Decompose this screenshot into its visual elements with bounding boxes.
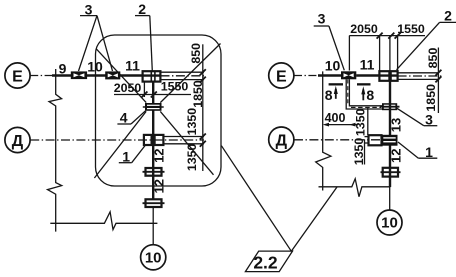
valve fitting 1 (axis Д, left)	[144, 135, 164, 145]
flow mark bar right (8)	[357, 83, 371, 85]
extension fitting 11 right	[397, 36, 399, 72]
dim text 1350 upper (right, rotated) with underline	[353, 108, 367, 137]
flanged tee fitting 11 (left)	[143, 71, 161, 81]
diagonal SE ray	[160, 111, 213, 174]
axis dash inside elbow horizontal run	[351, 106, 381, 108]
svg-text:2: 2	[138, 1, 146, 17]
flanged connection fitting A	[143, 168, 165, 176]
axis Е continuation right of fitting 11	[161, 75, 205, 77]
compensator fitting (right, dark with slots)	[380, 103, 400, 110]
elbow pipe double line (down from tee, right block)	[346, 79, 382, 109]
flanged connection fitting (right lower)	[381, 168, 401, 177]
svg-text:12: 12	[388, 149, 403, 163]
tick 397	[395, 33, 401, 39]
svg-text:10: 10	[325, 58, 341, 74]
axis circle Д (left)	[5, 127, 30, 152]
axis circle 10 (right bottom)	[377, 210, 402, 235]
svg-text:11: 11	[360, 57, 375, 73]
tick at 154	[151, 92, 157, 98]
svg-text:8: 8	[366, 87, 374, 103]
leader from 1 to fitting	[132, 145, 146, 163]
diagonal SW ray	[94, 111, 146, 178]
right vertical dimension line (left block, x=203)	[202, 44, 204, 171]
svg-text:1350: 1350	[185, 144, 199, 172]
dimension line 2050/1550 (left block)	[114, 94, 191, 96]
svg-text:Д: Д	[276, 133, 288, 150]
svg-text:8: 8	[325, 87, 333, 103]
leader from 3 to fitting 9	[79, 16, 98, 71]
leader from 3 to fitting 10	[97, 16, 113, 71]
pipe between fittings (right)	[356, 74, 379, 76]
riser axis dash inside elbow	[347, 80, 349, 105]
extension line below axis Е (right)	[398, 78, 439, 80]
svg-text:1850: 1850	[191, 80, 205, 108]
tick at Е upper	[200, 69, 206, 75]
riser pipe (right, vertical thick)	[389, 81, 391, 187]
leader from 1 to valve	[398, 142, 418, 158]
damper fitting 10 (right, black rect with bowtie)	[341, 71, 356, 79]
extension from fitting 11 left edge	[143, 82, 145, 97]
extension line above axis Е (right)	[398, 72, 439, 74]
vertical dimension line left (x=60) with breaks	[48, 69, 62, 232]
extension from pipe	[152, 82, 154, 97]
svg-text:13: 13	[389, 118, 404, 132]
svg-text:850: 850	[426, 48, 440, 69]
svg-text:11: 11	[125, 58, 140, 74]
flow mark bar left (8)	[329, 83, 343, 85]
bottom dimension line (left block) with break	[50, 212, 157, 230]
extension fitting 11 left	[379, 36, 381, 72]
tick 379	[377, 33, 383, 39]
extension line above axis Д	[163, 136, 204, 138]
far right vertical dim line	[437, 48, 439, 114]
axis Е continuation far right	[398, 75, 444, 77]
valve fitting at Д (right): outline + dark half	[365, 135, 398, 146]
tick at Е lower	[200, 77, 206, 83]
svg-text:Д: Д	[12, 133, 24, 150]
svg-text:12: 12	[152, 179, 167, 193]
extension line below axis Д	[163, 143, 204, 145]
svg-text:Е: Е	[276, 69, 287, 86]
extension line above axis Е to dim line	[161, 71, 205, 73]
axis Д dash-dot line (left)	[30, 139, 204, 141]
leader from 2 to fitting 11	[150, 16, 153, 71]
axis Д dash-dot (right)	[294, 139, 382, 141]
svg-text:850: 850	[189, 43, 203, 64]
svg-text:1850: 1850	[424, 84, 438, 112]
svg-text:3: 3	[318, 11, 326, 27]
svg-text:10: 10	[381, 215, 398, 232]
damper fitting 9 (black rect with bowtie)	[71, 71, 87, 79]
dimension 400 with arrows	[323, 111, 358, 127]
svg-text:1350: 1350	[353, 108, 367, 136]
tick 391	[388, 33, 394, 39]
axis circle Е (left)	[5, 63, 30, 88]
axis circle Е (right)	[269, 63, 294, 88]
svg-text:2: 2	[444, 8, 452, 24]
extension riser 10	[348, 36, 350, 71]
axis Е dash-dot (right, to boundary)	[294, 75, 319, 77]
svg-text:400: 400	[325, 111, 346, 125]
equipment outline rounded rect (left)	[96, 35, 222, 186]
svg-text:2050: 2050	[114, 81, 142, 95]
axis circle 10 (left bottom)	[141, 245, 166, 270]
svg-text:10: 10	[87, 59, 103, 75]
pipe on axis Е (left, thick)	[52, 74, 144, 76]
flow arrow right	[361, 86, 365, 100]
diagonal NE ray	[160, 44, 220, 103]
svg-text:1350: 1350	[352, 138, 366, 166]
axis Е dash-dot line (left)	[30, 75, 54, 77]
leader from 3 to fitting 10 (right)	[329, 26, 344, 70]
pipe on axis Е (right)	[318, 74, 341, 76]
extension riser	[389, 36, 391, 72]
tick at Д lower	[200, 141, 206, 147]
flag parallelogram 2.2	[245, 251, 292, 272]
svg-text:9: 9	[59, 61, 67, 77]
leader from 3 to compensator	[397, 108, 424, 126]
svg-text:2050: 2050	[350, 22, 378, 36]
riser pipe (left, vertical thick)	[152, 82, 154, 200]
boundary horizontal line with break (right block)	[319, 179, 391, 197]
extension line below axis Е to dim line	[161, 79, 205, 81]
flow arrow left	[334, 86, 338, 99]
flag leader left line	[221, 146, 291, 252]
top dimension line 2050/1550 (right block)	[349, 35, 425, 37]
flag leader right line	[291, 187, 337, 251]
damper fitting 10 (black rect with bowtie)	[105, 71, 120, 79]
boundary vertical line with break (right block)	[316, 71, 331, 190]
flanged tee fitting 11 (right)	[379, 71, 397, 81]
riser pipe thin to circle 10 (right)	[389, 187, 391, 210]
dim text 1350 lower (right, rotated) with underline	[352, 138, 366, 166]
svg-text:1550: 1550	[397, 22, 425, 36]
flanged connection fitting B	[143, 199, 165, 207]
diagonal NW ray	[96, 49, 146, 103]
axis circle Д (right)	[269, 127, 294, 152]
tick at 144	[141, 92, 147, 98]
svg-text:1550: 1550	[161, 80, 189, 94]
svg-text:4: 4	[120, 110, 128, 126]
svg-text:Е: Е	[12, 69, 23, 86]
tick far right upper	[435, 70, 441, 76]
riser pipe thin to circle 10	[152, 207, 154, 245]
tick at Д upper	[200, 134, 206, 140]
svg-text:12: 12	[152, 148, 167, 162]
svg-text:2.2: 2.2	[253, 252, 278, 272]
svg-text:10: 10	[145, 250, 162, 267]
leader from 4 to fitting	[131, 111, 146, 124]
tick far right lower	[435, 76, 441, 82]
svg-text:1350: 1350	[185, 108, 199, 136]
leader from 2 to fitting 11 (right)	[397, 22, 440, 69]
compensator fitting 4 (dark with slots)	[143, 103, 164, 111]
